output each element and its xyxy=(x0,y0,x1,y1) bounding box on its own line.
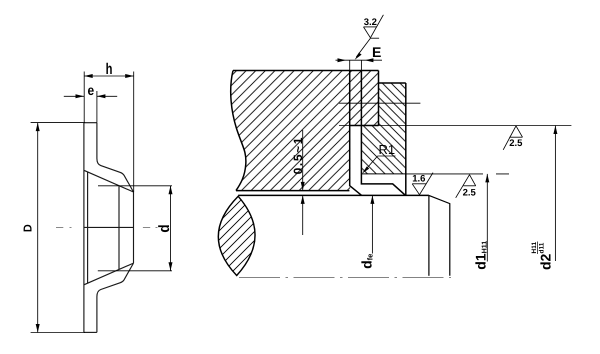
svg-text:R1: R1 xyxy=(379,142,396,157)
centerline left figure xyxy=(56,226,158,228)
svg-text:2.5: 2.5 xyxy=(509,138,523,149)
arrow D top xyxy=(36,123,40,132)
arrow E left xyxy=(338,58,347,62)
0.5~1 dimension xyxy=(302,130,304,235)
arrow d top xyxy=(169,186,173,195)
seal mid edge xyxy=(84,226,134,228)
seal flange front face and upper lip xyxy=(97,123,134,192)
d1 extension line xyxy=(406,173,509,175)
cover recess bottom face xyxy=(361,173,405,175)
svg-text:d: d xyxy=(156,224,173,232)
arrow d1 xyxy=(485,174,489,183)
svg-text:0.5~1: 0.5~1 xyxy=(291,136,305,174)
seal flange front face and lower lip xyxy=(97,263,134,332)
LEFT FIGURE : seal ring cross-section xyxy=(31,72,172,333)
E dimension xyxy=(350,60,362,70)
arrow E right xyxy=(365,58,374,62)
seal seat line xyxy=(339,102,420,104)
flange inner edge xyxy=(87,172,89,283)
groove bottom edge xyxy=(350,125,379,127)
shaft centerline xyxy=(239,277,451,279)
housing hatched region xyxy=(231,71,379,191)
d1 dimension xyxy=(486,174,488,262)
d2 H11/d11 label xyxy=(531,242,553,271)
arrow d2 xyxy=(553,126,557,135)
svg-text:1.6: 1.6 xyxy=(412,174,425,185)
svg-text:3.2: 3.2 xyxy=(364,17,377,28)
svg-text:D: D xyxy=(23,224,35,232)
arrow h left xyxy=(84,74,93,78)
groove left wall and seal lip chamfer xyxy=(350,71,362,196)
arrow h right xyxy=(125,74,134,78)
svg-text:d11: d11 xyxy=(539,242,546,253)
arrow gap 0.5~1 lower xyxy=(301,195,305,204)
shaft break lens xyxy=(218,196,255,275)
dimension e xyxy=(64,91,117,123)
svg-text:e: e xyxy=(87,82,94,98)
shaft end chamfer and end face xyxy=(429,195,450,275)
seal OD top face xyxy=(84,122,97,124)
housing bore edge xyxy=(236,190,349,192)
dimension D xyxy=(31,123,85,333)
shaft chamfer edge xyxy=(428,195,430,275)
seal back face xyxy=(83,123,85,333)
labels left figure xyxy=(23,61,174,233)
arrow d bottom xyxy=(169,262,173,271)
arrow e right xyxy=(97,94,106,98)
2.5 roughness symbol on d2 line xyxy=(503,126,522,150)
svg-text:h: h xyxy=(106,61,113,78)
shaft top surface xyxy=(238,194,429,196)
svg-text:2.5: 2.5 xyxy=(463,187,477,198)
housing break line xyxy=(231,71,246,191)
svg-text:d2: d2 xyxy=(538,253,554,270)
3.2 roughness symbol xyxy=(356,15,383,57)
thick outlines right figure xyxy=(231,71,406,196)
seal bore face xyxy=(118,186,120,269)
groove right wall and lip bottom edge xyxy=(361,71,405,196)
dfe dimension xyxy=(371,195,373,253)
dimension h xyxy=(84,72,134,193)
2.5 roughness symbol on d1 line xyxy=(456,175,476,198)
cover hatched region xyxy=(361,83,405,174)
arrow gap 0.5~1 upper xyxy=(301,182,305,191)
lip tip silhouette xyxy=(133,192,135,263)
dimension d xyxy=(98,186,172,271)
arrow dfe xyxy=(370,195,374,204)
upper lip inner slant xyxy=(84,170,134,192)
thin lines right figure xyxy=(239,60,571,277)
seal OD bottom face xyxy=(84,331,97,333)
svg-text:E: E xyxy=(372,44,381,60)
cover right face xyxy=(405,83,407,195)
d2 dimension xyxy=(554,126,556,262)
arrow e left xyxy=(76,94,85,98)
d2 extension line xyxy=(339,125,571,127)
arrow D bottom xyxy=(36,324,40,333)
housing right face xyxy=(378,71,380,126)
housing top edge xyxy=(233,70,379,72)
lower lip inner slant xyxy=(84,263,134,285)
cover top edge xyxy=(379,82,406,84)
1.6 roughness symbol xyxy=(412,173,433,195)
